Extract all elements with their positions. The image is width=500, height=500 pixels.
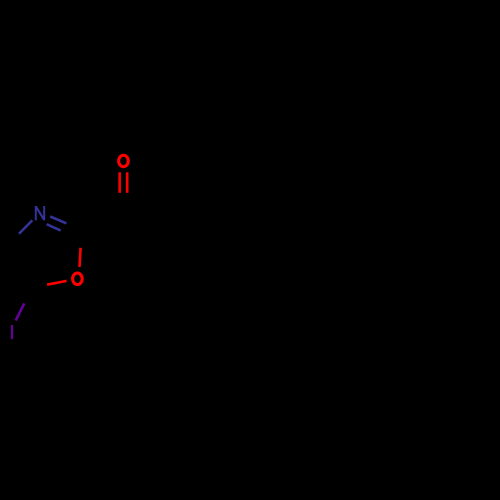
bond C=O carbonyl double bond, O half (red), right line: [126, 172, 129, 193]
bond C4=C5 inner line (carbon, black): [14, 246, 33, 280]
atom N3 nitrogen label: [35, 206, 45, 220]
bond C5-I, C half (black): [24, 288, 30, 303]
bond C2-O1, O half (red): [80, 248, 81, 267]
bond C=O carbonyl double bond, C half (black), left line: [118, 193, 121, 214]
bond N3-C4, N half (blue): [19, 220, 32, 234]
bond C4=C5 main line (carbon, black): [6, 248, 30, 289]
bond N3=C2 main line, N half (blue): [50, 217, 66, 224]
bond O1-C5, C half (black): [30, 285, 47, 288]
bond C5-I, I half (purple): [16, 303, 25, 320]
bond C=O carbonyl double bond, O half (red), left line: [118, 172, 121, 193]
atom O carbonyl oxygen label: [119, 155, 129, 166]
bond N3=C2 inner line, C half (black): [61, 231, 74, 237]
wire: alkyl chain bonds (carbon, black): [123, 214, 454, 229]
bond O1-C5, O half (red): [47, 281, 67, 285]
bond N3=C2 main line, C half (black): [67, 223, 83, 229]
bond C2-O1, C half (black): [81, 229, 82, 248]
bond N3=C2 inner line, N half (blue): [47, 224, 61, 230]
wire: C2-C(carbonyl) bond (carbon, black): [82, 214, 123, 229]
bond C=O carbonyl double bond, C half (black), right line: [126, 193, 129, 214]
atom I iodine label: [11, 325, 13, 339]
atom O1 ring oxygen label: [73, 273, 83, 284]
bond N3-C4, C half (black): [6, 234, 19, 248]
